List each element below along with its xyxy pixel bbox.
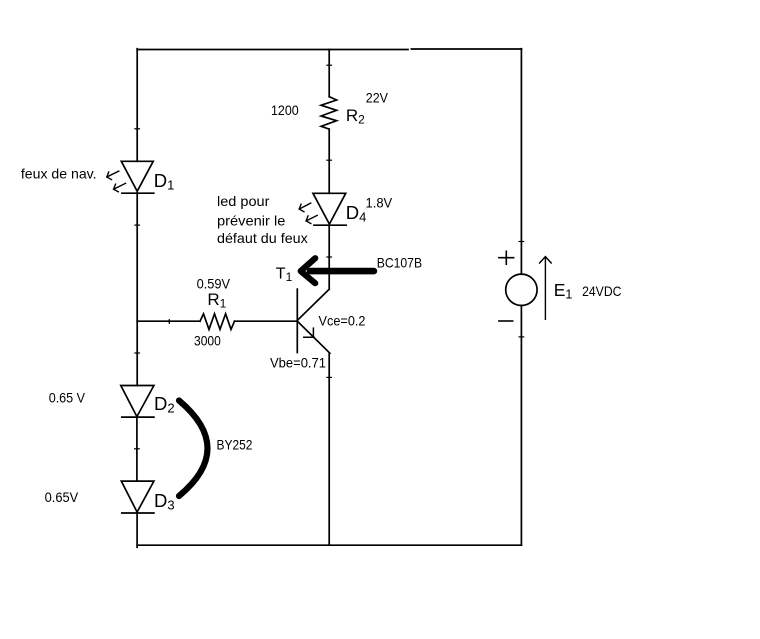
svg-text:0.65 V: 0.65 V	[49, 390, 86, 406]
wire base from left rail	[137, 320, 200, 322]
plus terminal	[499, 251, 514, 264]
svg-text:0.65V: 0.65V	[45, 489, 79, 505]
wire top rail left segment	[137, 49, 408, 51]
svg-text:feux de nav.: feux de nav.	[21, 166, 97, 182]
diode D3 cathode bar	[122, 512, 154, 514]
junction tick right rail 1	[519, 241, 524, 243]
wire R2-to-D4	[328, 129, 330, 193]
annotation arrow BC107B	[301, 258, 374, 283]
svg-text:Vce=0.2: Vce=0.2	[319, 312, 366, 328]
annotation brace BY252	[179, 401, 208, 497]
LED D4 triangle	[313, 193, 346, 224]
wire left rail D2-to-D3	[136, 417, 138, 481]
resistor R2	[321, 97, 337, 129]
LED D1 emission arrow lower	[114, 183, 126, 192]
wire R1-to-base	[235, 320, 298, 322]
svg-text:BY252: BY252	[217, 436, 253, 452]
wire emitter down	[328, 353, 330, 545]
LED D1 triangle	[121, 161, 153, 191]
wire top rail right segment	[411, 48, 521, 50]
junction tick middle branch 4	[327, 376, 332, 378]
svg-text:22V: 22V	[366, 89, 389, 105]
wire middle branch top	[328, 50, 330, 97]
svg-text:BC107B: BC107B	[377, 255, 422, 271]
source E1 circle	[506, 274, 537, 305]
junction tick right rail 2	[519, 336, 524, 338]
wire D4-to-collector	[328, 225, 330, 289]
svg-text:1200: 1200	[271, 102, 299, 118]
LED D4 emission arrow upper	[299, 203, 311, 212]
svg-text:Vbe=0.71: Vbe=0.71	[270, 354, 326, 370]
junction tick base wire	[168, 320, 170, 323]
wire right rail lower	[520, 306, 522, 546]
svg-text:défaut du feux: défaut du feux	[217, 230, 308, 246]
junction tick left rail 2	[135, 224, 140, 226]
svg-text:1.8V: 1.8V	[366, 194, 393, 210]
transistor T1 emitter diagonal	[298, 322, 330, 354]
junction tick middle branch 2	[327, 159, 332, 161]
resistor R1	[200, 314, 235, 330]
transistor T1 collector diagonal	[297, 289, 329, 320]
svg-text:led pour: led pour	[217, 193, 270, 209]
minus terminal	[499, 320, 513, 322]
wire bottom rail	[137, 544, 521, 546]
current direction arrow	[540, 257, 552, 320]
svg-text:3000: 3000	[194, 332, 221, 348]
junction tick left rail 4	[135, 448, 140, 450]
junction tick left rail 1	[135, 128, 140, 130]
LED D4 emission arrow lower	[306, 215, 317, 223]
LED D4 cathode bar	[314, 224, 346, 226]
wire left rail upper	[136, 49, 138, 162]
junction tick middle branch 1	[327, 64, 332, 66]
LED D1 emission arrow upper	[107, 171, 119, 180]
svg-text:prévenir le: prévenir le	[217, 213, 286, 229]
transistor T1 emitter arrow mark	[304, 328, 314, 337]
wire right rail upper	[520, 49, 522, 275]
wire left rail lower	[136, 513, 138, 547]
svg-text:24VDC: 24VDC	[582, 283, 621, 299]
junction tick left rail 3	[135, 352, 140, 354]
transistor T1 base bar	[296, 289, 298, 352]
junction tick middle branch 3	[327, 256, 332, 258]
wire left rail D1-to-D2	[136, 193, 138, 386]
diode D2 cathode bar	[122, 416, 154, 418]
diode D3 triangle	[121, 481, 154, 512]
diode D2 triangle	[121, 386, 154, 417]
LED D1 cathode bar	[122, 192, 154, 194]
